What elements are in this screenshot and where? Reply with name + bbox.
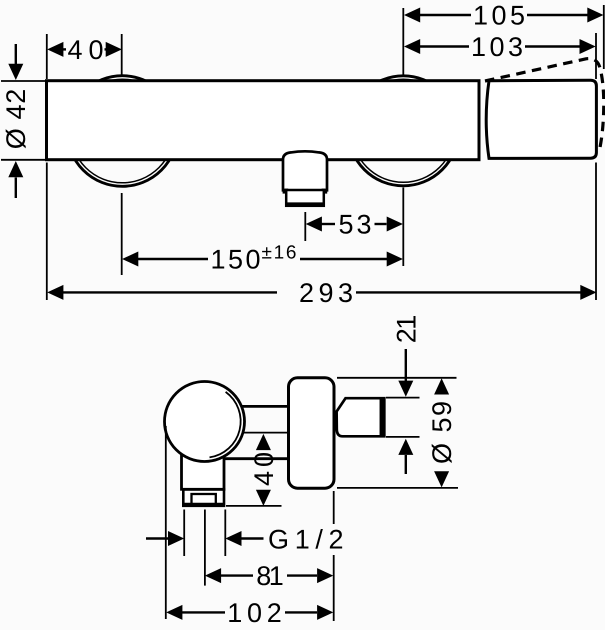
spout connector body with dome top [283,151,327,190]
dimension 105 (top right) [403,0,604,74]
spout body (side) [182,448,225,489]
dimension 150±16 [122,243,403,275]
svg-text:Ø 42: Ø 42 [1,89,31,150]
mixer body bar [47,81,480,160]
arm top edge [238,405,289,408]
svg-text:150: 150 [211,244,261,274]
union nut / wall connection [337,398,385,436]
svg-text:105: 105 [473,0,525,30]
left escutcheon outer circle [67,76,178,187]
right escutcheon inner rim [352,79,455,182]
spout outlet tip outer [183,490,224,506]
dimension 40 (top left) [47,34,122,79]
svg-text:103: 103 [471,32,523,62]
svg-text:±16: ±16 [262,243,297,264]
dimension 21 (vertical) [386,315,422,474]
dimension Ø59 (vertical) [337,378,458,488]
extension line bar top to left edge [1,80,46,82]
inner rim arc of circle [210,392,241,458]
right escutcheon outer circle [348,76,458,186]
spout outlet bottom band [286,202,324,207]
right extension line (lower) [595,163,597,301]
spout outlet tip inner [192,494,216,506]
svg-text:Ø 59: Ø 59 [427,401,457,464]
dimension 293 [47,278,596,308]
wall escutcheon (side) [289,378,335,488]
svg-text:G1/2: G1/2 [268,525,344,555]
dimension 53 [306,209,403,239]
81 / 102 extension lines [204,510,206,586]
svg-text:102: 102 [227,598,282,628]
right escutcheon centre extension line [402,188,404,267]
dimension Ø42 (vertical, left) [1,44,31,198]
body circle (side) [165,382,245,462]
left escutcheon centre extension line [121,193,123,275]
extension line bar bottom to left edge [1,159,46,161]
spout centre extension line [304,212,306,241]
lever bottom edge [225,457,290,460]
spout step nub left [283,189,289,194]
dimension 102 [166,598,333,628]
dimension 40 (vertical, bottom view) [226,434,282,506]
bar left extension line (lower) [46,163,48,301]
handle (rest position) [486,80,596,158]
dimension 81 [205,561,333,591]
spout step nub right [322,189,328,194]
spout outlet nipple [286,190,324,206]
left escutcheon inner rim [71,79,175,183]
arm mid thin line [240,432,289,434]
dimension 103 [404,32,596,79]
nut right face thick edge [380,398,386,436]
svg-text:21: 21 [392,315,422,344]
spout tip bottom band [184,503,224,507]
dimension G1/2 [146,525,344,555]
dashed swing arc of handle [485,59,604,150]
svg-text:293: 293 [299,278,353,308]
svg-text:81: 81 [256,561,284,591]
G1/2 extension lines [183,510,185,557]
